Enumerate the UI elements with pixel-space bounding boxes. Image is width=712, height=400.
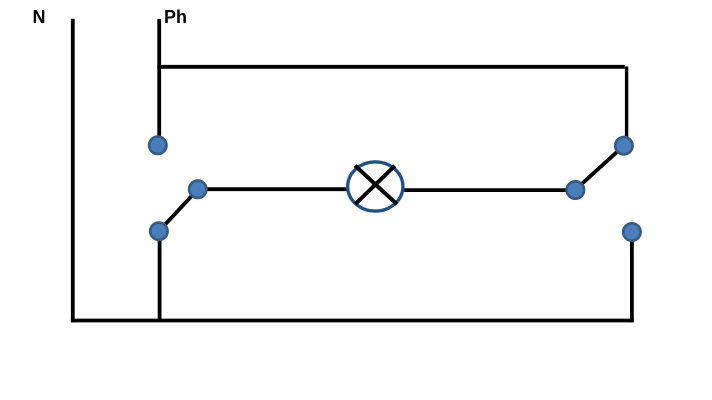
terminal: S1 common [189, 181, 206, 198]
svg-text:Ph: Ph [164, 7, 187, 27]
terminal: S1 lower [150, 223, 167, 240]
svg-text:N: N [33, 7, 46, 27]
wire: bottom return to lamp side [71, 319, 634, 323]
lamp L1 [348, 162, 403, 211]
terminal: S2 lower [623, 223, 640, 240]
switch S2 blade (common to top terminal) [575, 146, 624, 190]
terminal: S2 top [615, 137, 632, 154]
wire: neutral N vertical feed [71, 19, 75, 323]
terminal: S2 common [567, 181, 584, 198]
wire: top branch from Ph to switch S2 [157, 65, 625, 69]
terminal: S1 top [149, 137, 166, 154]
wire: right drop from top branch to S2 top terminal [625, 67, 628, 138]
wire: S1 lower terminal down to bottom return [158, 231, 162, 320]
wire: S1 common to lamp [198, 187, 347, 191]
wire: S2 lower terminal down to bottom return [630, 232, 634, 322]
wire: lamp to S2 common [404, 188, 575, 192]
switch S1 blade (lower terminal to common) [159, 189, 198, 231]
wire: Ph drop to switch S1 top terminal [157, 19, 161, 137]
